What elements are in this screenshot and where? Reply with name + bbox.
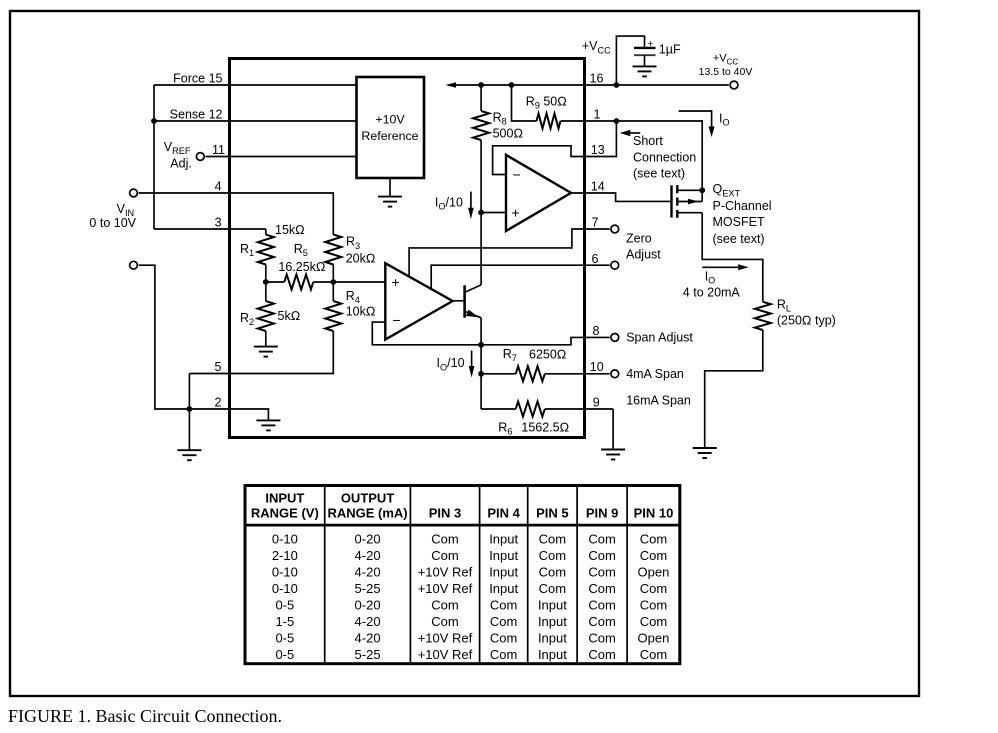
svg-text:(250Ω typ): (250Ω typ) xyxy=(777,314,836,328)
label 4mA Span xyxy=(626,367,684,381)
terminal VREF Adj xyxy=(196,153,204,161)
svg-text:R2: R2 xyxy=(240,311,254,327)
svg-text:0-10: 0-10 xyxy=(272,565,298,580)
svg-text:9: 9 xyxy=(593,396,600,410)
svg-text:Short: Short xyxy=(633,134,663,148)
svg-text:0 to 10V: 0 to 10V xyxy=(89,216,136,230)
wire A2 feedback / pin 8 xyxy=(372,322,609,345)
op-amp A1 xyxy=(506,155,571,231)
resistor R9 50Ohm xyxy=(512,85,617,129)
wire pin 15 Force xyxy=(154,84,357,86)
svg-text:Com: Com xyxy=(640,614,667,629)
wire pin 3 xyxy=(154,228,266,230)
label Zero xyxy=(626,232,652,246)
wire pin 14 to Qext gate xyxy=(571,193,670,201)
label Force 15 xyxy=(173,72,222,86)
wire pin5-pin2 tie xyxy=(188,374,190,410)
wire pin 16 +Vcc rail xyxy=(446,82,729,87)
label pin 13 xyxy=(591,143,605,157)
transistor Qext P-channel MOSFET xyxy=(672,185,703,218)
junction pin2 tie xyxy=(187,406,193,412)
IC XTR110 boundary box xyxy=(230,59,585,438)
svg-text:+VCC: +VCC xyxy=(713,53,739,67)
svg-text:13: 13 xyxy=(591,143,605,157)
label Span Adjust xyxy=(626,331,693,345)
svg-text:4-20: 4-20 xyxy=(355,614,381,629)
label 5kOhm xyxy=(278,309,301,323)
wire pin 11 VREF Adj xyxy=(206,156,357,158)
terminal pin 8 xyxy=(611,334,619,342)
junction Vcc bypass tap xyxy=(614,82,620,88)
junction emitter-feedback xyxy=(478,342,484,348)
svg-text:Input: Input xyxy=(538,598,567,613)
wire node to A2 + xyxy=(333,281,385,283)
resistor R6 1562.5Ohm xyxy=(481,402,613,417)
label R4 xyxy=(346,289,360,305)
svg-text:Com: Com xyxy=(640,598,667,613)
svg-text:Input: Input xyxy=(538,614,567,629)
svg-text:Com: Com xyxy=(490,598,517,613)
wire pin 5 to R4 xyxy=(189,331,333,374)
svg-text:Input: Input xyxy=(538,631,567,646)
svg-text:R1: R1 xyxy=(240,242,254,258)
label RL xyxy=(777,298,791,314)
svg-text:PIN 4: PIN 4 xyxy=(487,506,520,521)
svg-text:+10V Ref: +10V Ref xyxy=(418,581,473,596)
svg-text:Adjust: Adjust xyxy=(626,248,661,262)
resistor R4 10kOhm xyxy=(325,282,341,331)
wire trunk 15-12-3 xyxy=(153,85,155,229)
wire Vcc to C1 xyxy=(616,36,644,85)
annotation Io/10 lower arrow xyxy=(469,351,475,378)
junction R9 tap xyxy=(509,82,515,88)
svg-text:1µF: 1µF xyxy=(659,43,681,57)
svg-text:Com: Com xyxy=(640,548,667,563)
svg-text:+10V: +10V xyxy=(375,113,405,127)
svg-text:Adj.: Adj. xyxy=(170,157,192,171)
terminal pin 6 xyxy=(611,261,619,269)
caption FIGURE 1 xyxy=(8,706,282,726)
label 4 to 20mA xyxy=(683,286,741,300)
wire pin 7 zero adjust xyxy=(409,229,609,276)
svg-text:Zero: Zero xyxy=(626,232,652,246)
label pin 14 xyxy=(591,180,605,194)
svg-text:5-25: 5-25 xyxy=(355,647,381,662)
terminal pin 7 xyxy=(611,225,619,233)
svg-text:RANGE (V): RANGE (V) xyxy=(251,506,319,521)
terminal input lower xyxy=(130,261,138,269)
svg-text:+10V Ref: +10V Ref xyxy=(418,647,473,662)
wire A1+ to R8 xyxy=(480,140,482,213)
svg-text:20kΩ: 20kΩ xyxy=(346,252,376,266)
table grid xyxy=(245,486,680,664)
svg-text:IO: IO xyxy=(705,270,716,286)
wire short connection 1-13 xyxy=(585,121,617,157)
label 500Ohm xyxy=(493,127,523,141)
wire emitter node down xyxy=(480,345,482,409)
label pin 8 xyxy=(593,324,600,338)
label Vref Adj xyxy=(164,140,192,171)
wire pin 13 to A1 - xyxy=(493,146,585,175)
svg-text:1-5: 1-5 xyxy=(275,614,294,629)
resistor R5 16.25kOhm xyxy=(266,275,334,290)
svg-text:16: 16 xyxy=(590,72,604,86)
label Io top xyxy=(719,112,730,128)
svg-text:Com: Com xyxy=(588,614,615,629)
label pin 5 xyxy=(215,360,222,374)
svg-text:+: + xyxy=(392,274,400,290)
svg-text:+: + xyxy=(647,38,653,50)
svg-text:Input: Input xyxy=(538,647,567,662)
svg-text:RL: RL xyxy=(777,298,791,314)
svg-text:Com: Com xyxy=(539,581,566,596)
label 20kOhm xyxy=(346,252,376,266)
label R8 xyxy=(493,111,507,127)
svg-text:5kΩ: 5kΩ xyxy=(278,309,301,323)
svg-text:INPUT: INPUT xyxy=(265,491,304,506)
label pin 3 xyxy=(215,216,222,230)
svg-text:2-10: 2-10 xyxy=(272,548,298,563)
svg-text:R3: R3 xyxy=(346,235,360,251)
svg-text:VREF: VREF xyxy=(164,140,191,156)
label pin 10 xyxy=(590,360,604,374)
svg-text:PIN 3: PIN 3 xyxy=(429,506,462,521)
ground (reference box) xyxy=(378,178,402,207)
label 13.5 to 40V xyxy=(699,66,753,78)
label (250 Ohm typ) xyxy=(777,314,836,328)
terminal +Vcc xyxy=(730,81,738,89)
label Io mid xyxy=(705,270,716,286)
svg-text:Connection: Connection xyxy=(633,150,696,164)
svg-text:16mA Span: 16mA Span xyxy=(626,394,691,408)
label R7 6250Ohm xyxy=(503,347,567,363)
label pin 2 xyxy=(215,396,222,410)
transistor Q1 xyxy=(453,285,481,345)
svg-text:Com: Com xyxy=(539,565,566,580)
label P-Channel xyxy=(713,199,772,213)
label pin 16 xyxy=(590,72,604,86)
capacitor C1 1uF xyxy=(634,38,656,55)
label 0 to 10V xyxy=(89,216,136,230)
wire RL return xyxy=(705,330,763,448)
svg-text:6: 6 xyxy=(592,252,599,266)
svg-text:Com: Com xyxy=(640,647,667,662)
junction R8 top xyxy=(478,82,484,88)
svg-text:4: 4 xyxy=(215,180,222,194)
resistor R7 6250Ohm xyxy=(481,366,609,381)
svg-text:0-20: 0-20 xyxy=(355,598,381,613)
wire pin 6 zero adjust xyxy=(431,265,609,289)
svg-text:8: 8 xyxy=(593,324,600,338)
ground (R2) xyxy=(254,347,278,357)
svg-text:Force 15: Force 15 xyxy=(173,72,222,86)
svg-text:Com: Com xyxy=(539,548,566,563)
label Vin xyxy=(117,202,135,218)
svg-text:Input: Input xyxy=(489,565,518,580)
svg-text:Com: Com xyxy=(640,532,667,547)
svg-text:16.25kΩ: 16.25kΩ xyxy=(278,260,325,274)
arrow short connection xyxy=(620,130,640,137)
svg-text:Com: Com xyxy=(490,614,517,629)
svg-text:0-5: 0-5 xyxy=(275,598,294,613)
label R5 xyxy=(294,242,308,258)
label 10kOhm xyxy=(346,305,376,319)
label Adjust xyxy=(626,248,661,262)
svg-text:1: 1 xyxy=(594,107,601,121)
svg-text:Com: Com xyxy=(431,548,458,563)
svg-text:6250Ω: 6250Ω xyxy=(529,347,566,361)
svg-text:RANGE (mA): RANGE (mA) xyxy=(327,506,407,521)
wire pin 4 to R3 xyxy=(139,193,334,235)
label Short xyxy=(633,134,663,148)
svg-text:IO/10: IO/10 xyxy=(435,196,463,212)
ground (input common) xyxy=(177,409,201,460)
table body xyxy=(272,532,670,663)
svg-text:R7: R7 xyxy=(503,347,517,363)
svg-text:Com: Com xyxy=(588,581,615,596)
label pin 4 xyxy=(215,180,222,194)
label MOSFET xyxy=(713,215,765,229)
terminal pin 10 xyxy=(611,370,619,378)
resistor R8 500Ohm xyxy=(473,85,489,140)
svg-text:2: 2 xyxy=(215,396,222,410)
+10V Reference block U_ref xyxy=(357,77,425,178)
svg-text:IO: IO xyxy=(719,112,730,128)
label +Vcc top xyxy=(582,39,611,55)
svg-text:5: 5 xyxy=(215,360,222,374)
svg-text:(see text): (see text) xyxy=(633,166,685,180)
svg-text:Input: Input xyxy=(489,581,518,596)
svg-text:MOSFET: MOSFET xyxy=(713,215,765,229)
svg-text:PIN 9: PIN 9 xyxy=(586,506,619,521)
resistor R1 15kOhm xyxy=(258,229,274,282)
svg-text:IO/10: IO/10 xyxy=(437,356,465,372)
label R2 xyxy=(240,311,254,327)
svg-text:+: + xyxy=(512,205,520,221)
op-amp A2 xyxy=(385,263,452,339)
svg-text:+VCC: +VCC xyxy=(582,39,611,55)
svg-text:PIN 10: PIN 10 xyxy=(634,506,674,521)
svg-text:Com: Com xyxy=(431,598,458,613)
svg-text:4-20: 4-20 xyxy=(355,548,381,563)
label pin 7 xyxy=(592,216,599,230)
label Sense 12 xyxy=(170,108,223,122)
label pin 1 xyxy=(594,107,601,121)
label pin 11 xyxy=(212,143,225,157)
svg-text:1562.5Ω: 1562.5Ω xyxy=(521,421,569,435)
annotation Io/10 upper arrow xyxy=(468,192,474,220)
svg-text:Com: Com xyxy=(640,581,667,596)
svg-text:Com: Com xyxy=(539,532,566,547)
svg-text:P-Channel: P-Channel xyxy=(713,199,772,213)
ground (C1) xyxy=(633,55,657,76)
svg-text:15kΩ: 15kΩ xyxy=(275,223,305,237)
label 1uF xyxy=(659,43,681,57)
svg-text:4mA Span: 4mA Span xyxy=(626,367,684,381)
svg-text:Sense 12: Sense 12 xyxy=(170,108,223,122)
svg-text:−: − xyxy=(393,312,401,328)
label pin 6 xyxy=(592,252,599,266)
label (see text) lower xyxy=(713,232,765,246)
svg-text:Com: Com xyxy=(490,631,517,646)
ground (pin 2 internal) xyxy=(256,409,280,430)
svg-text:Com: Com xyxy=(490,647,517,662)
svg-text:500Ω: 500Ω xyxy=(493,127,523,141)
svg-text:Input: Input xyxy=(489,532,518,547)
svg-text:OUTPUT: OUTPUT xyxy=(341,491,395,506)
label R6 1562.5Ohm xyxy=(498,421,569,437)
svg-text:0-20: 0-20 xyxy=(355,532,381,547)
wire pin 9 to ground xyxy=(612,409,614,450)
svg-text:3: 3 xyxy=(215,216,222,230)
svg-text:Span Adjust: Span Adjust xyxy=(626,331,693,345)
svg-text:Com: Com xyxy=(588,598,615,613)
label 16.25kOhm xyxy=(278,260,325,274)
wire Qext drain to RL xyxy=(702,213,763,302)
ground (RL return) xyxy=(693,448,717,458)
svg-text:0-10: 0-10 xyxy=(272,581,298,596)
svg-text:11: 11 xyxy=(212,143,225,157)
junction pin1 node xyxy=(614,118,620,124)
junction node R3-R4-R5 xyxy=(330,279,336,285)
svg-text:Com: Com xyxy=(588,532,615,547)
wire A1 + input xyxy=(481,212,506,214)
wire pin 12 Sense xyxy=(154,120,357,122)
svg-text:Com: Com xyxy=(431,614,458,629)
svg-text:PIN 5: PIN 5 xyxy=(536,506,569,521)
svg-text:R6: R6 xyxy=(498,421,512,437)
svg-text:Com: Com xyxy=(588,565,615,580)
svg-text:+10V Ref: +10V Ref xyxy=(418,565,473,580)
svg-text:R5: R5 xyxy=(294,242,308,258)
svg-text:R9 50Ω: R9 50Ω xyxy=(526,95,567,111)
label Io/10 upper xyxy=(435,196,463,212)
svg-text:7: 7 xyxy=(592,216,599,230)
annotation Io arrow top xyxy=(679,111,715,137)
svg-text:13.5 to 40V: 13.5 to 40V xyxy=(699,66,753,78)
svg-text:4-20: 4-20 xyxy=(355,631,381,646)
svg-text:Com: Com xyxy=(431,532,458,547)
label R1 xyxy=(240,242,254,258)
label Qext xyxy=(713,182,741,198)
svg-text:0-10: 0-10 xyxy=(272,532,298,547)
svg-text:10: 10 xyxy=(590,360,604,374)
table header xyxy=(251,491,673,521)
label R3 xyxy=(346,235,360,251)
resistor R2 5kOhm xyxy=(258,282,274,347)
svg-text:5-25: 5-25 xyxy=(355,581,381,596)
annotation Io arrow mid xyxy=(702,264,749,270)
junction node R1-R2-R5 xyxy=(263,279,269,285)
svg-text:Open: Open xyxy=(638,631,670,646)
svg-text:Com: Com xyxy=(588,631,615,646)
junction A1 + input xyxy=(478,210,484,216)
svg-text:4 to 20mA: 4 to 20mA xyxy=(683,286,741,300)
label 16mA Span xyxy=(626,394,691,408)
svg-text:Com: Com xyxy=(588,548,615,563)
junction R7 node xyxy=(478,371,484,377)
label +Vcc right xyxy=(713,53,739,67)
svg-text:QEXT: QEXT xyxy=(713,182,741,198)
svg-text:14: 14 xyxy=(591,180,605,194)
junction trunk-sense xyxy=(151,118,157,124)
wire pin 1 to Qext source xyxy=(616,121,702,190)
svg-text:10kΩ: 10kΩ xyxy=(346,305,376,319)
svg-text:R4: R4 xyxy=(346,289,360,305)
svg-text:+10V Ref: +10V Ref xyxy=(418,631,473,646)
svg-text:0-5: 0-5 xyxy=(275,631,294,646)
label Connection xyxy=(633,150,696,164)
label (see text) upper xyxy=(633,166,685,180)
svg-text:(see text): (see text) xyxy=(713,232,765,246)
svg-text:Com: Com xyxy=(588,647,615,662)
label pin 9 xyxy=(593,396,600,410)
wire lower input to pin 2 xyxy=(139,265,270,409)
svg-text:−: − xyxy=(513,167,521,183)
ground (pin 9) xyxy=(601,450,625,460)
terminal VIN xyxy=(130,189,138,197)
resistor RL xyxy=(755,302,771,330)
svg-text:0-5: 0-5 xyxy=(275,647,294,662)
wire Q1 collector to A1+ xyxy=(480,213,482,285)
label R9 50Ohm xyxy=(526,95,567,111)
label Io/10 lower xyxy=(437,356,465,372)
svg-text:FIGURE 1. Basic Circuit Connec: FIGURE 1. Basic Circuit Connection. xyxy=(8,706,282,726)
svg-text:4-20: 4-20 xyxy=(355,565,381,580)
svg-text:Input: Input xyxy=(489,548,518,563)
svg-text:Open: Open xyxy=(638,565,670,580)
label 15kOhm xyxy=(275,223,305,237)
junction Qext source xyxy=(699,187,705,193)
svg-text:R8: R8 xyxy=(493,111,507,127)
resistor R3 20kOhm xyxy=(325,235,341,283)
svg-text:Reference: Reference xyxy=(361,129,418,143)
